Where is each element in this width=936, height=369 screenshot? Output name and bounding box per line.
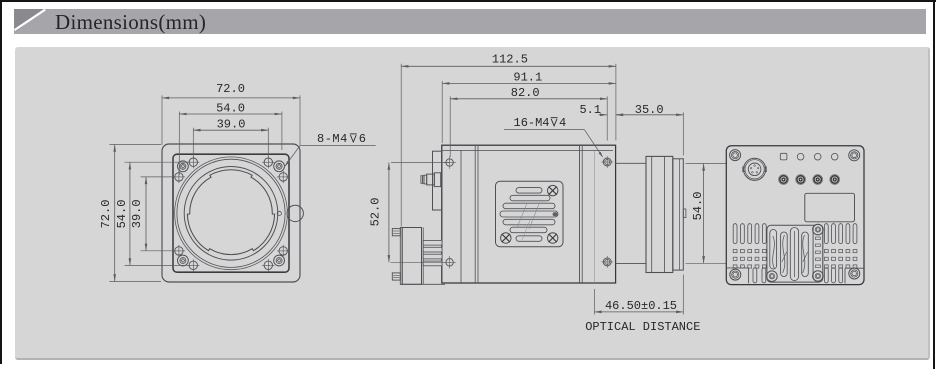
svg-text:6: 6 — [359, 132, 366, 146]
svg-text:46.50±0.15: 46.50±0.15 — [605, 299, 677, 313]
svg-text:91.1: 91.1 — [513, 71, 542, 85]
svg-text:5.1: 5.1 — [579, 103, 601, 117]
svg-text:72.0: 72.0 — [99, 200, 113, 229]
svg-text:54.0: 54.0 — [691, 192, 705, 221]
svg-text:54.0: 54.0 — [115, 200, 129, 229]
svg-text:16-M4: 16-M4 — [514, 116, 550, 130]
svg-text:82.0: 82.0 — [511, 86, 540, 100]
svg-text:54.0: 54.0 — [216, 101, 245, 115]
svg-text:8-M4: 8-M4 — [317, 132, 348, 146]
svg-text:OPTICAL DISTANCE: OPTICAL DISTANCE — [585, 320, 700, 334]
svg-text:112.5: 112.5 — [492, 52, 528, 66]
svg-text:39.0: 39.0 — [130, 199, 144, 228]
svg-text:39.0: 39.0 — [217, 118, 246, 132]
svg-text:4: 4 — [559, 116, 566, 130]
svg-text:52.0: 52.0 — [368, 198, 382, 227]
svg-text:72.0: 72.0 — [216, 82, 245, 96]
svg-text:35.0: 35.0 — [635, 103, 664, 117]
